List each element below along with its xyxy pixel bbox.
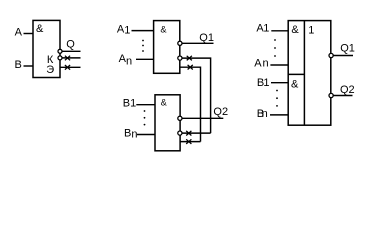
svg-text:Bn: Bn [124,127,137,140]
svg-text:A: A [15,27,23,39]
svg-text:Q2: Q2 [340,84,355,96]
svg-text:&: & [36,23,44,35]
svg-text:A1: A1 [117,23,130,36]
svg-text:Q1: Q1 [340,42,355,54]
svg-text:&: & [291,79,299,91]
svg-text:Bn: Bn [257,108,268,120]
svg-text:A1: A1 [256,23,269,35]
svg-text:Q1: Q1 [199,32,214,44]
svg-text:&: & [291,24,299,36]
svg-text:Э: Э [46,64,54,76]
svg-text:&: & [161,98,167,108]
svg-text:An: An [254,58,268,70]
svg-text:B1: B1 [123,98,136,110]
svg-text:Q: Q [66,38,75,50]
svg-text:Q2: Q2 [213,106,228,118]
svg-text:1: 1 [308,24,314,36]
svg-text:B: B [15,59,22,71]
svg-text:&: & [160,24,166,34]
svg-text:B1: B1 [257,77,270,89]
